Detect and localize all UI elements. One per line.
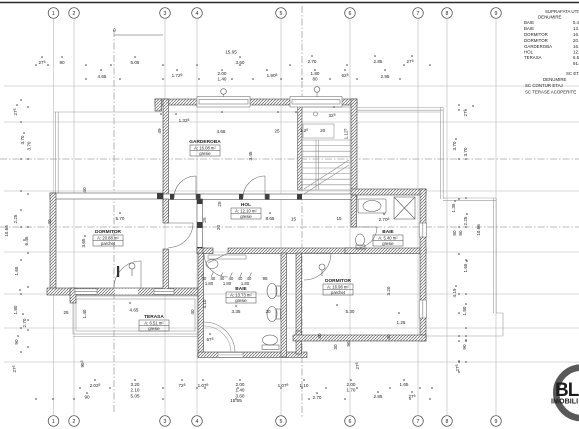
svg-text:25: 25 <box>202 217 207 223</box>
wall shaft right <box>296 253 302 341</box>
svg-text:HOL: HOL <box>241 202 251 208</box>
svg-text:6: 6 <box>349 11 352 17</box>
svg-text:SC TERASE ACOPERITE: SC TERASE ACOPERITE <box>525 90 576 95</box>
svg-text:4: 4 <box>196 419 199 425</box>
grid bubble 8 bottom <box>442 416 453 427</box>
door dormitor swing <box>169 223 194 248</box>
grid bubble 2 bottom <box>69 416 80 427</box>
svg-text:30: 30 <box>333 344 338 350</box>
wall small bath bottom / dorm north east part <box>345 248 426 254</box>
svg-text:1.10: 1.10 <box>300 383 309 388</box>
svg-text:SC ETAJ: SC ETAJ <box>566 71 579 76</box>
svg-text:1.40: 1.40 <box>218 77 227 82</box>
door small bath leaf <box>356 226 377 228</box>
wall stairwell left thin <box>298 105 303 190</box>
svg-text:A: 16.08 m²: A: 16.08 m² <box>194 146 216 151</box>
axis line 8 <box>446 19 448 415</box>
svg-text:2: 2 <box>73 419 76 425</box>
dimension chain line D stub <box>114 34 163 36</box>
svg-text:2: 2 <box>73 11 76 17</box>
svg-text:3.20: 3.20 <box>386 286 391 295</box>
shower curve big bath <box>204 322 235 353</box>
svg-text:1.65: 1.65 <box>400 382 409 387</box>
door gap terrace <box>115 289 138 295</box>
svg-text:4.65: 4.65 <box>98 74 107 79</box>
radiator teeth below hol wall <box>208 255 246 259</box>
axis line 1 <box>53 19 55 415</box>
door hol-bath swing <box>204 253 228 277</box>
svg-text:SC CONTUR ETAJ: SC CONTUR ETAJ <box>525 83 563 88</box>
grid bubble 1 top <box>48 8 59 19</box>
dims group <box>4 28 481 403</box>
svg-text:5.40: 5.40 <box>573 20 579 25</box>
wall corner post NW <box>155 99 162 111</box>
door terrace leaf <box>140 261 142 288</box>
svg-text:BAIE: BAIE <box>382 229 394 235</box>
svg-text:40: 40 <box>190 309 195 315</box>
horizontal construction line A <box>4 85 579 87</box>
outline group: light double-line roof / terrace edges <box>54 108 503 337</box>
svg-text:DORMITOR: DORMITOR <box>95 229 122 235</box>
svg-text:2.85: 2.85 <box>374 394 383 399</box>
svg-text:parchet: parchet <box>331 290 346 295</box>
grid bubble 7 bottom <box>413 416 424 427</box>
svg-text:1: 1 <box>52 11 55 17</box>
door garderoba 1 leaf <box>195 176 197 199</box>
svg-text:5.05: 5.05 <box>131 60 140 65</box>
left roof edge vertical double <box>55 112 57 193</box>
axis line 3 <box>164 19 166 415</box>
wall garderoba bottom hollow <box>163 194 357 200</box>
svg-text:gresie: gresie <box>148 326 160 331</box>
fixtures group <box>117 197 415 357</box>
wall hol bottom main <box>228 248 357 254</box>
svg-text:4: 4 <box>196 11 199 17</box>
svg-text:3.20: 3.20 <box>131 382 140 387</box>
roof edge horizontal left-to-right <box>54 111 440 113</box>
svg-text:gresie: gresie <box>235 298 247 303</box>
stair flight diagonal 2 <box>304 160 349 189</box>
window east small bath <box>419 223 426 237</box>
svg-text:2.70: 2.70 <box>308 59 317 64</box>
svg-text:12.10: 12.10 <box>573 50 579 55</box>
table group: suprafata utila schedule <box>524 9 579 95</box>
svg-text:A: 12.10 m²: A: 12.10 m² <box>235 209 257 214</box>
door dormitor leaf <box>169 222 194 224</box>
horizontal construction line D <box>4 190 579 192</box>
grid bubble 4 bottom <box>192 416 203 427</box>
svg-text:DORMITOR: DORMITOR <box>524 38 548 43</box>
svg-text:1.70: 1.70 <box>347 388 356 393</box>
wall right of stairwell <box>351 99 357 190</box>
svg-text:95: 95 <box>262 276 268 281</box>
stair treads <box>302 139 351 141</box>
svg-text:gresie: gresie <box>382 241 394 246</box>
svg-text:BAIE: BAIE <box>235 286 247 292</box>
stair boundary <box>302 107 351 190</box>
svg-text:25: 25 <box>274 129 280 134</box>
wall dormitor right <box>163 199 169 223</box>
horizontal centerline E dashed <box>0 226 579 228</box>
room label HOL <box>231 202 261 219</box>
svg-text:5.70: 5.70 <box>116 216 125 221</box>
svg-text:1.35: 1.35 <box>451 203 456 212</box>
axis line 9 <box>495 19 497 415</box>
svg-text:49: 49 <box>157 128 162 134</box>
roof edge bottom step <box>426 313 503 336</box>
room label TERASA <box>139 314 169 331</box>
svg-text:SUPRAFATA UTILA: SUPRAFATA UTILA <box>545 9 579 14</box>
stair flight diagonal 1 <box>304 165 349 194</box>
svg-text:5.05: 5.05 <box>131 394 140 399</box>
svg-text:1.40: 1.40 <box>82 309 87 318</box>
wall dormitor2 bottom <box>293 335 426 341</box>
svg-text:3: 3 <box>164 11 167 17</box>
svg-text:80: 80 <box>452 230 457 236</box>
svg-text:1.80: 1.80 <box>13 305 18 314</box>
svg-text:2.95: 2.95 <box>381 74 390 79</box>
svg-text:DORMITOR: DORMITOR <box>325 278 352 284</box>
wall dormitor bottom (south, above terrace) <box>47 288 198 295</box>
svg-text:13.73: 13.73 <box>573 26 579 31</box>
svg-text:7: 7 <box>417 11 420 17</box>
svg-text:40: 40 <box>386 334 391 340</box>
dimension tick dots <box>16 55 474 400</box>
svg-text:A: 5.40 m²: A: 5.40 m² <box>378 236 398 241</box>
window W2 <box>290 97 342 108</box>
svg-text:9: 9 <box>495 11 498 17</box>
grid bubble 5 top <box>276 8 287 19</box>
svg-text:90: 90 <box>462 344 467 350</box>
dormitor column mark <box>117 266 119 277</box>
svg-text:3.70: 3.70 <box>27 141 32 150</box>
svg-text:10.66: 10.66 <box>4 225 9 237</box>
svg-text:1: 1 <box>52 419 55 425</box>
door terrace swing <box>114 261 141 288</box>
svg-text:3.65: 3.65 <box>81 238 86 247</box>
horizontal construction line G <box>4 293 579 295</box>
wall small bath west <box>351 195 357 227</box>
svg-text:5.30: 5.30 <box>346 309 355 314</box>
door small bath swing <box>356 227 377 248</box>
horizontal centerline C dashed <box>0 158 579 160</box>
svg-text:3.70: 3.70 <box>463 147 468 156</box>
labels group <box>93 139 403 331</box>
svg-text:15.65: 15.65 <box>225 50 237 55</box>
svg-text:gresie: gresie <box>199 151 211 156</box>
axis circles group <box>48 8 501 427</box>
wall hol bottom west piece <box>197 248 205 254</box>
grid bubble 5 bottom <box>276 416 287 427</box>
svg-text:80: 80 <box>458 230 463 236</box>
roof edge top right horizontal <box>357 107 443 109</box>
door garderoba 2 leaf <box>264 176 266 199</box>
svg-text:2.10: 2.10 <box>131 388 140 393</box>
wall bath bottom <box>198 352 307 358</box>
big bath sink <box>263 335 278 345</box>
svg-text:DENUMIRE: DENUMIRE <box>538 15 561 20</box>
svg-text:1.65: 1.65 <box>463 263 468 272</box>
svg-text:25: 25 <box>217 201 222 207</box>
wall east exterior <box>420 189 426 341</box>
svg-text:HOL: HOL <box>524 50 534 55</box>
big bath washbasin left <box>206 260 218 269</box>
door dormitor2 swing <box>304 253 331 280</box>
stair mid rail <box>315 140 317 190</box>
grid bubble 4 top <box>192 8 203 19</box>
svg-text:BAIE: BAIE <box>524 20 534 25</box>
stairs group <box>302 107 351 194</box>
svg-text:90: 90 <box>59 60 65 65</box>
svg-text:1.80: 1.80 <box>205 281 214 286</box>
svg-text:91.66: 91.66 <box>573 61 579 66</box>
wall dormitor left exterior <box>50 193 56 293</box>
grid bubble 6 bottom <box>345 416 356 427</box>
dormitor ceiling lamp marker <box>129 263 135 269</box>
svg-text:4.68: 4.68 <box>217 129 226 134</box>
terrace bottom outside edge <box>73 336 198 338</box>
door garderoba 1 swing <box>174 176 196 198</box>
svg-text:4.10: 4.10 <box>202 299 207 308</box>
terrace outline rectangle <box>73 296 198 334</box>
axis line 6 <box>349 19 351 415</box>
svg-text:10.66: 10.66 <box>476 224 481 236</box>
small bath sink counter <box>358 199 386 213</box>
axis line 2 <box>73 19 75 415</box>
svg-text:GARDEROBA: GARDEROBA <box>524 44 552 49</box>
grid bubble 7 top <box>413 8 424 19</box>
svg-text:2.00: 2.00 <box>218 71 227 76</box>
grid bubble 2 top <box>69 8 80 19</box>
grid bubble 9 top <box>491 8 502 19</box>
window east dormitor <box>419 300 426 318</box>
wall bath top partial west <box>203 248 213 254</box>
small bath shower diagonals <box>394 197 415 219</box>
svg-text:15: 15 <box>336 216 342 221</box>
wall stair south / east block north <box>351 189 426 195</box>
room label BAIE small <box>373 229 403 246</box>
room label BAIE big <box>226 286 256 303</box>
svg-text:16.08: 16.08 <box>573 44 579 49</box>
svg-text:20: 20 <box>216 225 221 231</box>
centerline axis mid vertical <box>301 6 303 418</box>
svg-text:5: 5 <box>280 11 283 17</box>
svg-text:gresie: gresie <box>240 214 252 219</box>
window axis marker W1 <box>221 89 227 95</box>
grid bubble 3 bottom <box>160 416 171 427</box>
svg-text:3.70: 3.70 <box>452 141 457 150</box>
svg-text:4.19: 4.19 <box>452 288 457 297</box>
svg-text:5: 5 <box>280 419 283 425</box>
svg-text:40: 40 <box>317 333 322 339</box>
horizontal construction line H <box>4 327 579 329</box>
svg-text:1.25: 1.25 <box>397 320 406 325</box>
svg-text:20: 20 <box>265 309 271 314</box>
svg-text:1.40: 1.40 <box>236 388 245 393</box>
svg-text:8: 8 <box>446 11 449 17</box>
svg-text:2.00: 2.00 <box>236 382 245 387</box>
sheet top border <box>0 2 579 4</box>
svg-text:8.65: 8.65 <box>266 216 275 221</box>
big bath bidet <box>267 307 277 322</box>
window terrace W3 <box>75 289 97 295</box>
svg-text:GARDEROBA: GARDEROBA <box>189 139 221 145</box>
svg-text:80: 80 <box>312 77 318 82</box>
svg-text:90: 90 <box>14 339 19 345</box>
big bath toilet 1 <box>267 284 277 299</box>
wall dormitor right lower <box>163 249 169 293</box>
wall shaft lower piece <box>296 331 302 354</box>
stair landing box <box>303 124 334 138</box>
svg-text:8: 8 <box>446 419 449 425</box>
grid bubble 9 bottom <box>491 416 502 427</box>
svg-text:7: 7 <box>417 419 420 425</box>
small bath shower tray <box>394 197 415 219</box>
grid bubble 6 top <box>345 8 356 19</box>
door hol-bath leaf <box>208 253 228 263</box>
horizontal construction line B <box>4 121 579 123</box>
svg-text:A: 6.51 m²: A: 6.51 m² <box>144 321 164 326</box>
room label GARDEROBA <box>189 139 221 156</box>
svg-text:20: 20 <box>320 128 326 133</box>
wall bath left <box>198 253 204 357</box>
roof edge step horizontal <box>443 197 496 199</box>
wall top exterior <box>155 99 357 105</box>
wall hol west hollow <box>197 199 203 253</box>
window W1 <box>197 97 250 108</box>
svg-text:15: 15 <box>291 217 297 222</box>
svg-text:6.45: 6.45 <box>24 236 29 245</box>
grid bubble 1 bottom <box>48 416 59 427</box>
windows in top wall <box>75 87 426 318</box>
svg-text:25: 25 <box>63 310 69 315</box>
svg-text:1.65: 1.65 <box>14 266 19 275</box>
svg-text:3.35: 3.35 <box>232 309 241 314</box>
svg-text:16.96: 16.96 <box>573 32 579 37</box>
svg-text:IMOBILI: IMOBILI <box>551 397 578 406</box>
svg-text:2.70: 2.70 <box>313 395 322 400</box>
svg-text:6: 6 <box>349 419 352 425</box>
roof edge right vertical lower <box>493 198 495 313</box>
grid bubble 8 top <box>442 8 453 19</box>
walls group <box>47 99 426 358</box>
bath terrace window <box>218 353 243 358</box>
wall left of garderoba block <box>163 99 169 218</box>
svg-text:A: 13.73 m²: A: 13.73 m² <box>230 293 252 298</box>
svg-text:BAIE: BAIE <box>524 26 534 31</box>
wall dormitor top hollow <box>50 193 163 199</box>
svg-text:3.45: 3.45 <box>248 151 253 160</box>
svg-text:3.60: 3.60 <box>236 60 245 65</box>
svg-text:40: 40 <box>47 219 52 225</box>
small bath sink bowl <box>363 201 381 212</box>
svg-text:TERASA: TERASA <box>524 55 542 60</box>
svg-text:A: 16.96 m²: A: 16.96 m² <box>327 285 349 290</box>
svg-text:DENUMIRE: DENUMIRE <box>543 77 566 82</box>
svg-text:90: 90 <box>84 395 90 400</box>
svg-text:2.25: 2.25 <box>463 216 468 225</box>
svg-text:DORMITOR: DORMITOR <box>524 32 548 37</box>
window axis marker W2 <box>314 87 320 93</box>
door dormitor2 leaf <box>304 252 331 254</box>
svg-text:TERASA: TERASA <box>144 314 164 320</box>
wall bath right <box>281 253 287 357</box>
window terrace W4 <box>154 289 174 295</box>
small bath toilet <box>356 234 365 246</box>
wall terrace step vertical <box>70 288 76 303</box>
axis line 4 <box>196 19 198 415</box>
svg-text:1.80: 1.80 <box>311 71 320 76</box>
grid bubble 3 top <box>160 8 171 19</box>
svg-text:parchet: parchet <box>101 241 116 246</box>
horizontal construction line F <box>4 251 579 253</box>
svg-text:2.85: 2.85 <box>374 59 383 64</box>
svg-text:4.65: 4.65 <box>130 308 139 313</box>
svg-text:9: 9 <box>495 419 498 425</box>
room label DORMITOR left <box>93 229 123 246</box>
svg-text:1.80: 1.80 <box>462 306 467 315</box>
svg-text:3.70: 3.70 <box>20 135 25 144</box>
centerline axis D vertical <box>113 30 115 412</box>
svg-text:A: 20.88 m²: A: 20.88 m² <box>97 236 119 241</box>
axis line 7 <box>417 19 419 415</box>
dormitor2 ceiling lamp marker <box>319 264 325 270</box>
door garderoba 2 swing <box>243 176 265 198</box>
svg-text:1.80: 1.80 <box>241 281 250 286</box>
svg-text:1.80: 1.80 <box>223 281 232 286</box>
svg-text:20.88: 20.88 <box>573 38 579 43</box>
svg-text:2.00: 2.00 <box>347 382 356 387</box>
svg-text:40: 40 <box>82 187 87 193</box>
logo group: BLITZ IMOBILIARE watermark bottom right <box>551 368 579 419</box>
svg-text:2.70: 2.70 <box>22 318 27 327</box>
svg-text:2.25: 2.25 <box>13 214 18 223</box>
svg-text:6.51: 6.51 <box>573 55 579 60</box>
doors group <box>114 176 377 353</box>
svg-text:90: 90 <box>346 341 351 347</box>
svg-text:3: 3 <box>164 419 167 425</box>
room label DORMITOR right <box>323 278 353 295</box>
roof edge right vertical upper <box>440 108 442 200</box>
axis line 5 <box>280 19 282 415</box>
horizontal construction line I <box>4 361 579 363</box>
